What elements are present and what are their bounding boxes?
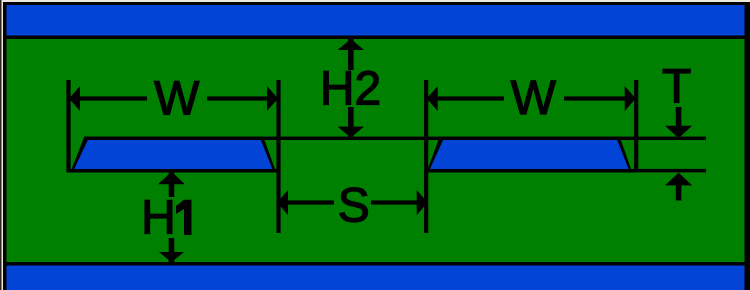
dimension S left arrowhead (277, 190, 288, 215)
extension line E4 (right of trace 2) (634, 80, 638, 172)
trace-top reference line (84, 137, 706, 140)
trace 1 outline (black) (70, 137, 276, 173)
S text pad (334, 184, 371, 223)
H2 text pad (318, 70, 383, 107)
dimension H1 up arrowhead (158, 172, 185, 185)
dimension W1 line (69, 96, 279, 100)
top ground plane (blue) (6, 5, 744, 36)
extension line E2 (right of trace 1) (276, 80, 280, 233)
dimension H2 down arrowhead (338, 127, 364, 138)
dimension W1 right arrowhead (267, 86, 278, 111)
dimension W1 left arrowhead (69, 86, 80, 111)
trace 2 outline (black) (427, 137, 633, 173)
dimension W2 right arrowhead (625, 86, 636, 111)
extension line E3 (left of trace 2) (424, 80, 428, 233)
dimension H1 stem (169, 172, 175, 262)
dimension T bottom stem (676, 185, 682, 201)
dimension S right arrowhead (417, 190, 428, 215)
dimension W2 line (426, 96, 636, 100)
trace 2 (right blue trapezoid) (430, 140, 629, 169)
dimension S line (279, 200, 427, 204)
H1 text pad (139, 197, 199, 238)
green dielectric body (6, 39, 744, 262)
extension line E1 (left of trace 1) (66, 80, 70, 172)
top plane lower black line (6, 35, 744, 39)
left screenshot edge shadow (0, 0, 1, 290)
bottom ground plane (blue) (6, 266, 744, 290)
dimension H2 up arrowhead (338, 39, 364, 50)
svg-text:T: T (662, 61, 691, 114)
W1 text pad (147, 80, 207, 117)
svg-text:H: H (141, 192, 176, 245)
svg-text:H2: H2 (320, 63, 381, 116)
W2 text pad (504, 80, 564, 117)
svg-text:W: W (154, 73, 200, 126)
trace 1 (left blue trapezoid) (74, 140, 272, 169)
trace-bottom line left segment (67, 169, 281, 173)
digit 1 of H1 (drawn to match Arial-style 1 without foot serif) (184, 200, 192, 235)
dimension H2 stem (348, 39, 354, 138)
dimension T top stem (676, 107, 682, 128)
trace-bottom line right segment (426, 169, 706, 173)
dimension H1 down arrowhead (159, 252, 184, 262)
svg-text:W: W (511, 72, 557, 125)
bottom plane upper black line (6, 262, 744, 266)
svg-text:S: S (338, 180, 370, 233)
dimension W2 left arrowhead (427, 86, 438, 111)
dimension T top arrowhead (points down) (665, 126, 692, 139)
dimension T bottom arrowhead (points up) (665, 173, 692, 186)
